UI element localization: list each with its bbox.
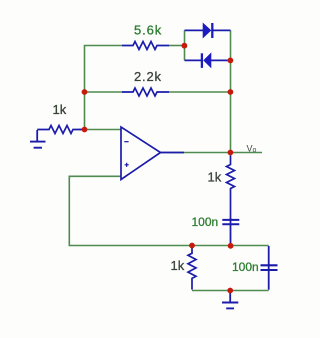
svg-text:2.2k: 2.2k [134, 69, 162, 84]
wire: op-amp output row with vo stub [161, 152, 263, 154]
op-amp U1 [121, 127, 184, 180]
svg-text:Vo: Vo [247, 144, 257, 155]
capacitor C 100n (series) [222, 218, 239, 244]
wire: bottom rail [192, 290, 269, 292]
wire [169, 91, 231, 93]
node: bottom rail ground junction [227, 288, 233, 294]
wire [169, 45, 185, 47]
wire: non-inverting input path [69, 176, 268, 245]
wire: 2.2k row [85, 91, 123, 93]
node: diode block left [182, 43, 188, 49]
svg-text:1k: 1k [171, 258, 185, 273]
node: 2.2k right junction [228, 89, 234, 95]
resistor R 5.6k [122, 42, 169, 50]
resistor R 2.2k [122, 88, 169, 96]
resistor R 1k (left, to ground) [37, 126, 82, 134]
wire: left vertical + top row to diode block [85, 46, 123, 130]
node: series cap bottom [228, 243, 234, 249]
node: output junction [228, 150, 234, 156]
capacitor C 100n (bottom right) [261, 246, 278, 290]
node: bottom network top-left [189, 243, 195, 249]
svg-text:100n: 100n [232, 260, 259, 274]
node: feedback junction (2.2k row, left) [82, 89, 88, 95]
wire: inverting input row [79, 129, 121, 131]
resistor R 1k (bottom) [188, 246, 196, 290]
wire: right vertical from diodes to output node [230, 30, 232, 152]
ground (bottom) [222, 291, 238, 308]
node: diode block right [228, 58, 234, 64]
svg-text:1k: 1k [53, 102, 67, 117]
wire: diode block left vertical [184, 30, 186, 60]
diode D1 (top, pointing right) [185, 23, 231, 38]
diode D2 (bottom, pointing left) [185, 53, 231, 68]
svg-text:5.6k: 5.6k [134, 23, 162, 38]
node: inverting input junction [82, 127, 88, 133]
ground (left) [30, 130, 46, 148]
resistor R 1k (vertical, output) [227, 155, 235, 220]
svg-text:100n: 100n [192, 215, 219, 229]
svg-text:1k: 1k [208, 170, 222, 185]
